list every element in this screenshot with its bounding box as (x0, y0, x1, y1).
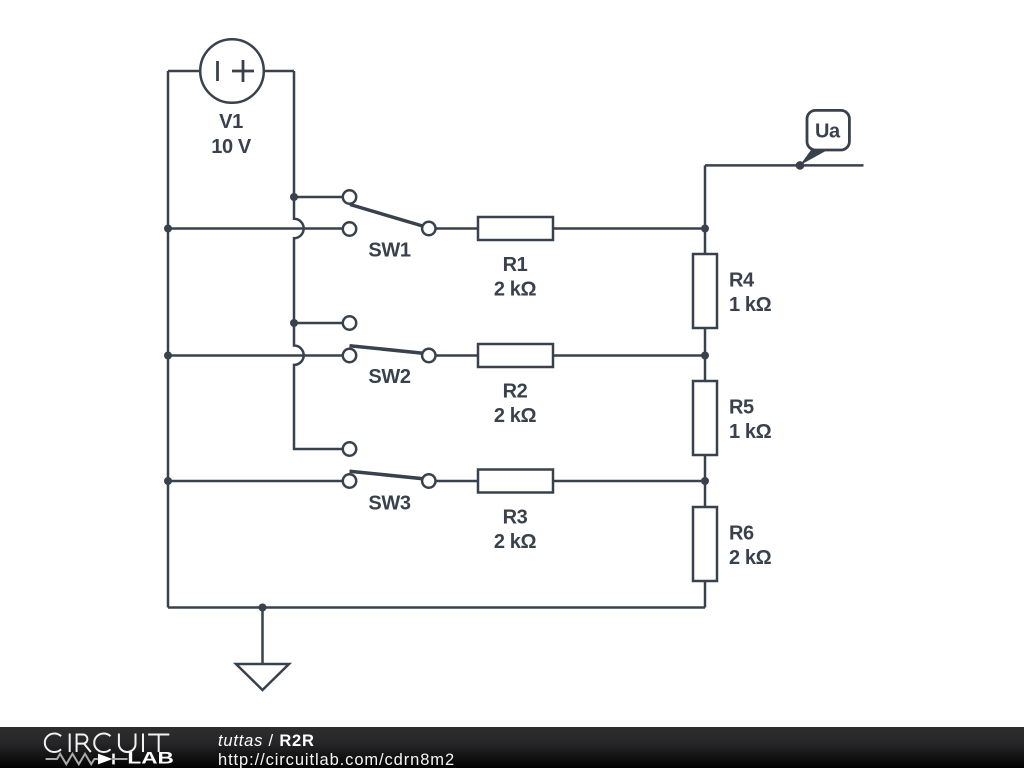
svg-text:http://circuitlab.com/cdrn8m2: http://circuitlab.com/cdrn8m2 (218, 751, 455, 768)
wire (294, 322, 343, 325)
wire (436, 227, 479, 230)
svg-text:2 kΩ: 2 kΩ (729, 547, 772, 569)
svg-text:2 kΩ: 2 kΩ (494, 531, 537, 553)
wire (705, 164, 864, 167)
switch SW1 (343, 190, 436, 261)
switch SW2 (343, 316, 436, 388)
svg-text:V1: V1 (219, 111, 243, 133)
svg-text:10 V: 10 V (211, 136, 252, 158)
svg-text:1 kΩ: 1 kΩ (729, 421, 772, 443)
node (701, 225, 709, 233)
wire (294, 71, 343, 449)
wire (553, 227, 705, 230)
node (290, 193, 298, 201)
node A (796, 161, 805, 170)
footer title tuttas / R2R (218, 732, 315, 750)
node (164, 352, 172, 360)
svg-text:R3: R3 (503, 506, 528, 528)
resistor R5 (693, 381, 772, 455)
wire (168, 227, 343, 230)
wire (167, 71, 170, 608)
svg-text:2 kΩ: 2 kΩ (494, 279, 537, 301)
resistor R6 (693, 507, 772, 581)
ground (236, 664, 289, 690)
svg-text:SW3: SW3 (368, 493, 410, 515)
CircuitLab logo LAB (127, 749, 173, 767)
svg-text:R2: R2 (503, 381, 528, 403)
resistor R4 (693, 254, 772, 328)
footer url (218, 751, 455, 768)
svg-text:1 kΩ: 1 kΩ (729, 294, 772, 316)
wire (168, 606, 705, 609)
node (259, 604, 267, 612)
resistor R1 (478, 217, 553, 301)
svg-text:tuttas / R2R: tuttas / R2R (218, 732, 315, 750)
svg-text:2 kΩ: 2 kΩ (494, 405, 537, 427)
node (164, 225, 172, 233)
switch SW3 (343, 442, 436, 514)
wire (168, 70, 201, 73)
wire (553, 480, 705, 483)
wire (168, 480, 343, 483)
CircuitLab logo squiggle (46, 754, 128, 765)
wire (168, 354, 343, 357)
wire (261, 608, 264, 665)
CircuitLab logo CIRCUIT (45, 734, 169, 753)
svg-text:R1: R1 (503, 254, 528, 276)
footer bar (0, 727, 1024, 768)
wire (704, 165, 707, 254)
wire (704, 455, 707, 507)
svg-text:R6: R6 (729, 523, 754, 545)
node (290, 319, 298, 327)
wire (263, 70, 294, 73)
node (701, 477, 709, 485)
wire (704, 581, 707, 608)
wire (294, 196, 343, 199)
wire (436, 354, 479, 357)
svg-text:R4: R4 (729, 270, 755, 292)
voltage source V1 (200, 39, 264, 158)
svg-text:Ua: Ua (815, 121, 841, 143)
svg-text:LAB: LAB (127, 749, 173, 767)
wire (704, 328, 707, 381)
svg-text:SW2: SW2 (368, 366, 410, 388)
node (164, 477, 172, 485)
net flag Ua (800, 110, 850, 165)
wire (553, 354, 705, 357)
resistor R3 (478, 470, 553, 553)
svg-text:R5: R5 (729, 397, 754, 419)
resistor R2 (478, 344, 553, 427)
wire (436, 480, 479, 483)
node (701, 352, 709, 360)
svg-text:SW1: SW1 (368, 239, 410, 261)
